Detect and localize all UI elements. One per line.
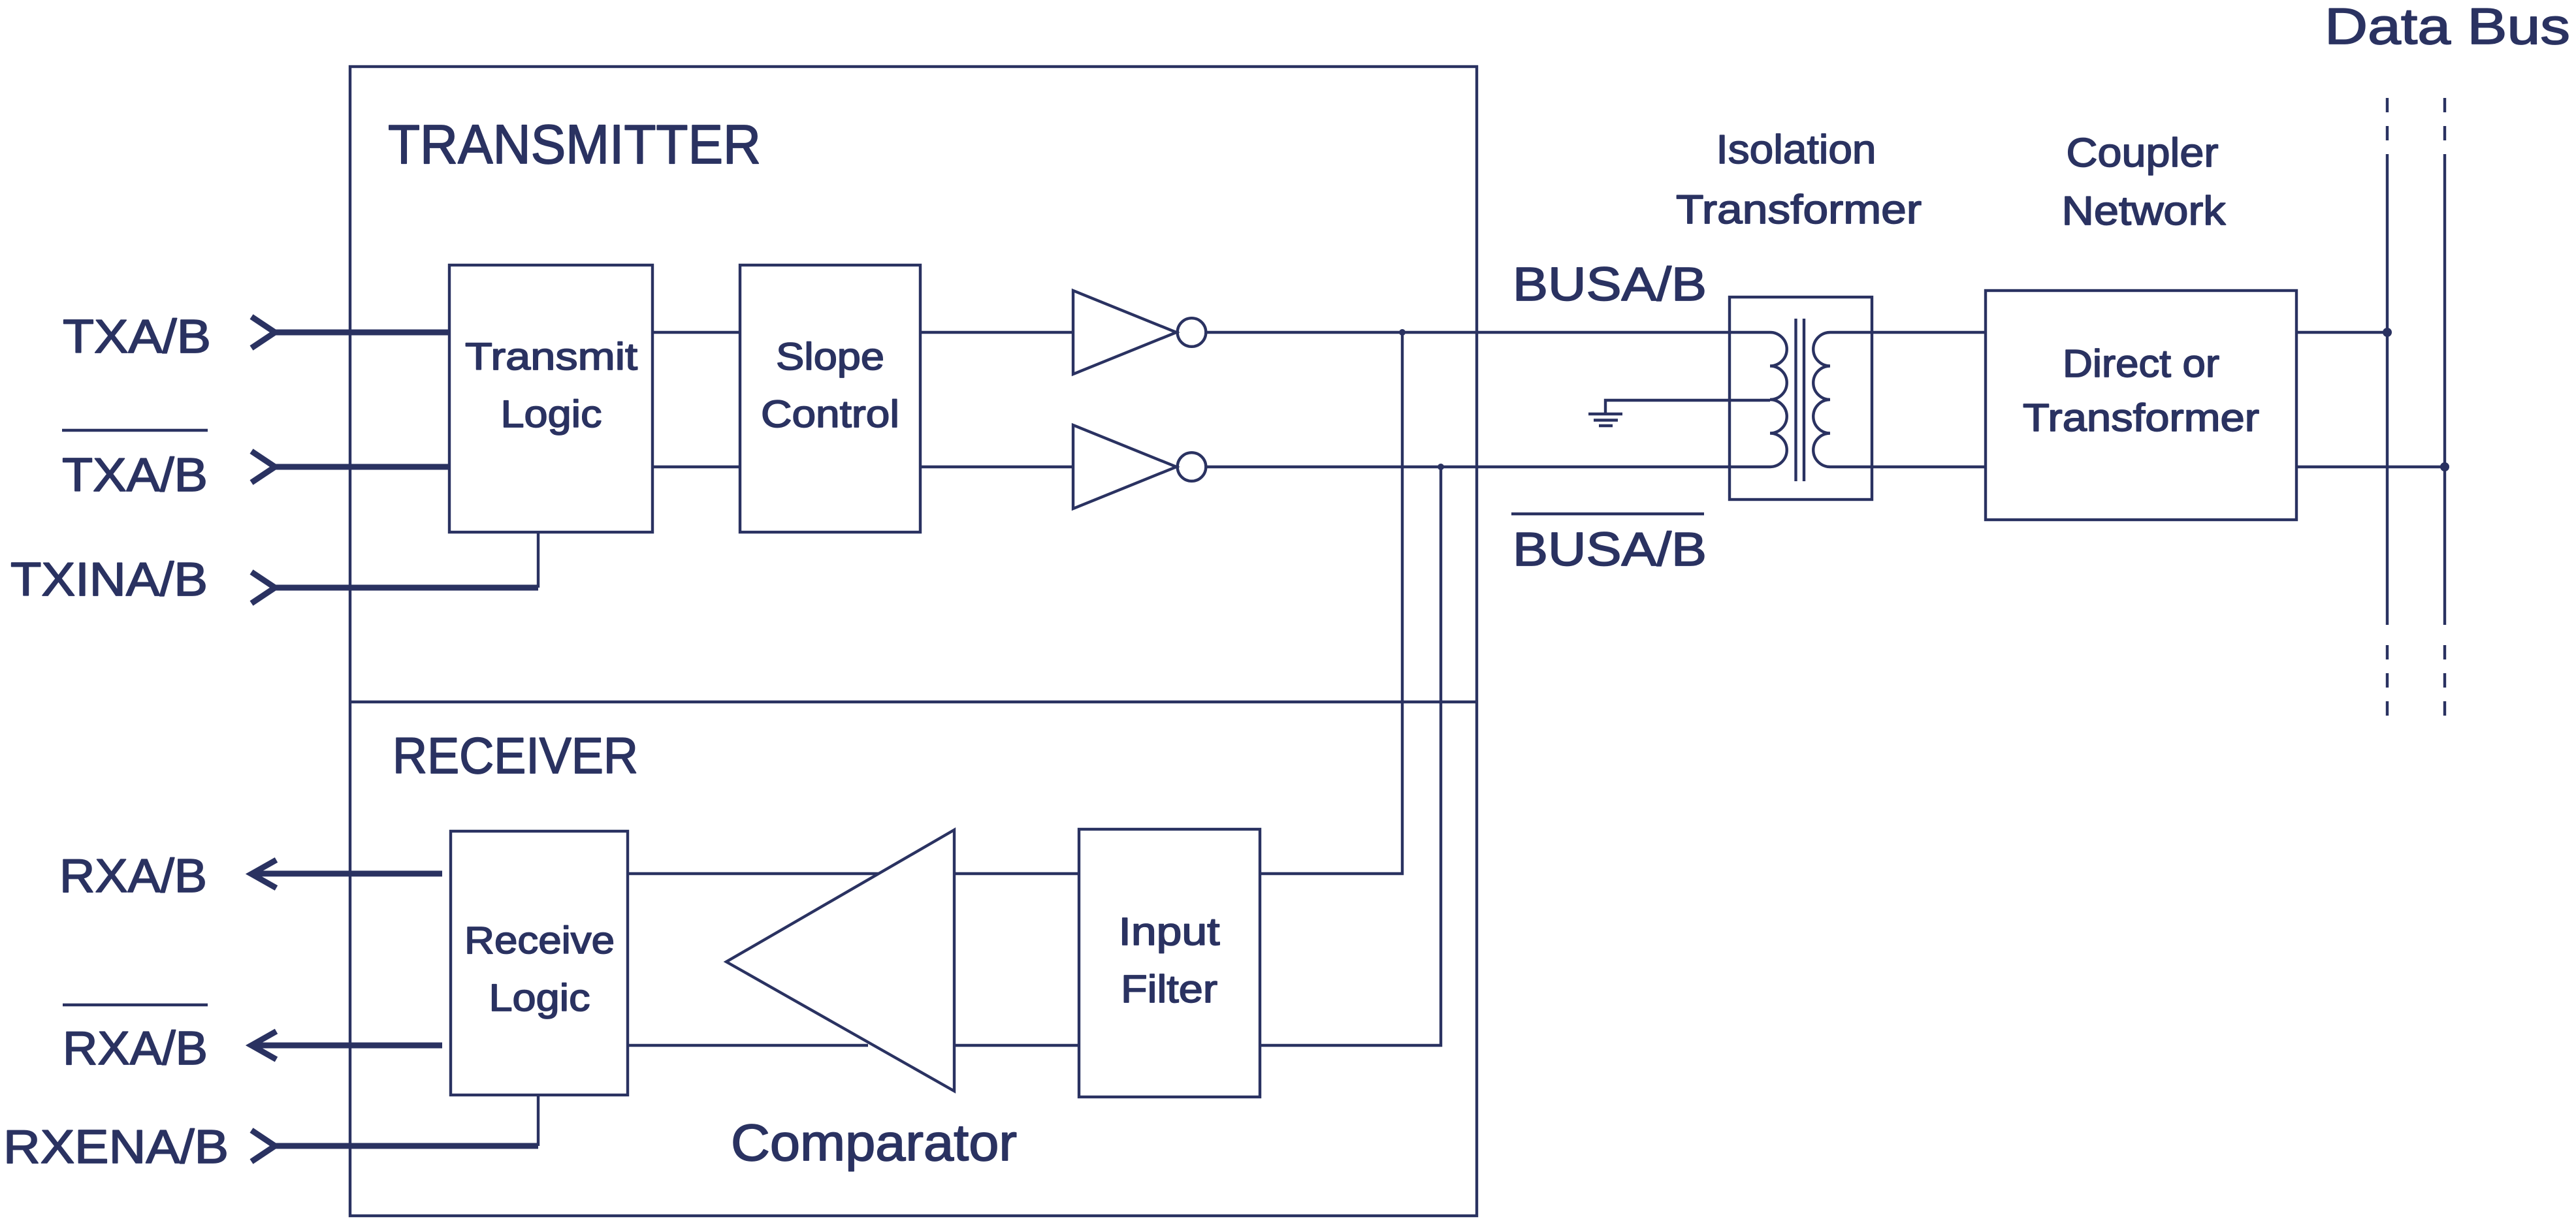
ground symbol	[1588, 414, 1622, 426]
svg-text:Filter: Filter	[1121, 968, 1217, 1011]
wire Transmit Logic to Slope Control (lower)	[652, 466, 740, 468]
input arrow RXENA/B	[251, 1130, 275, 1162]
wire TXINA/B stub up to Transmit Logic	[537, 532, 539, 588]
wire input filter to comparator (upper)	[954, 872, 1079, 875]
svg-text:Coupler: Coupler	[2067, 131, 2219, 176]
svg-text:RXA/B: RXA/B	[59, 850, 207, 902]
data bus line 1 (solid)	[2386, 168, 2389, 625]
wire RXA/B-bar output	[254, 1043, 442, 1049]
svg-text:BUSA/B: BUSA/B	[1513, 259, 1707, 311]
wire coupler to data bus line 2	[2296, 466, 2445, 468]
wire Slope Control to buffer 1	[920, 331, 1073, 334]
block Direct or Transformer coupler	[1986, 291, 2296, 520]
wire comparator to receive logic (lower)	[628, 1044, 868, 1047]
wire TXINA/B input	[275, 585, 538, 591]
svg-text:Logic: Logic	[501, 393, 602, 436]
svg-text:TXINA/B: TXINA/B	[10, 554, 208, 606]
inverter bubble 2	[1178, 452, 1206, 481]
svg-text:Transmit: Transmit	[465, 336, 637, 378]
transformer core line 2	[1803, 319, 1805, 481]
comparator triangle	[726, 830, 954, 1091]
input arrow TXA/B-bar	[251, 451, 275, 483]
wire transformer secondary to coupler (lower)	[1830, 466, 1986, 468]
data bus line 2 (dashed top)	[2443, 98, 2446, 168]
transformer primary winding	[1770, 332, 1787, 467]
block Slope Control	[740, 265, 920, 532]
tap wire 1 from BUSA/B down to receiver	[1260, 332, 1402, 874]
wire comparator to receive logic (upper)	[628, 872, 878, 875]
svg-text:RXENA/B: RXENA/B	[3, 1121, 229, 1173]
svg-text:BUSA/B: BUSA/B	[1513, 524, 1707, 576]
data bus line 1 (dashed top)	[2386, 98, 2389, 168]
junction dot on data bus line 1	[2383, 328, 2392, 337]
junction dot node BUSA/B-bar tap	[1438, 464, 1444, 470]
svg-text:Data Bus: Data Bus	[2325, 0, 2570, 55]
svg-text:Isolation: Isolation	[1716, 127, 1876, 172]
overbar for RXA/B-bar	[63, 1004, 208, 1006]
wire RXENA/B input	[275, 1143, 538, 1149]
block Receive Logic	[451, 831, 628, 1095]
buffer amplifier 2 (inverter triangle)	[1073, 425, 1176, 509]
buffer amplifier 1 (inverter triangle)	[1073, 291, 1176, 374]
wire coupler to data bus line 1	[2296, 331, 2387, 334]
svg-text:Network: Network	[2062, 189, 2227, 234]
wire buffer1 to transformer (BUSA/B)	[1206, 331, 1770, 334]
tap wire 2 from BUSA/B-bar down to receiver	[1260, 467, 1441, 1045]
input arrow TXA/B	[251, 317, 275, 348]
data bus line 2 (dashed bottom)	[2443, 645, 2446, 720]
wire input filter to comparator (lower)	[954, 1044, 1079, 1047]
isolation transformer box	[1730, 297, 1872, 499]
block Transmit Logic	[449, 265, 652, 532]
svg-text:TXA/B: TXA/B	[62, 449, 208, 501]
wire RXA/B output	[254, 871, 442, 877]
inverter bubble 1	[1178, 318, 1206, 347]
wire buffer2 to transformer (BUSA/B-bar)	[1206, 466, 1770, 468]
block Input Filter	[1079, 829, 1260, 1097]
wire RXENA/B stub up to Receive Logic	[537, 1095, 539, 1146]
transformer secondary winding	[1813, 332, 1830, 467]
junction dot on data bus line 2	[2440, 462, 2449, 471]
data bus line 1 (dashed bottom)	[2386, 645, 2389, 720]
svg-text:TRANSMITTER: TRANSMITTER	[388, 114, 761, 175]
svg-text:Transformer: Transformer	[2023, 396, 2259, 439]
svg-text:RECEIVER: RECEIVER	[393, 727, 638, 784]
output arrow RXA/B-bar	[251, 1032, 276, 1060]
svg-text:RXA/B: RXA/B	[63, 1023, 208, 1075]
wire Transmit Logic to Slope Control (upper)	[652, 331, 740, 334]
svg-text:TXA/B: TXA/B	[63, 311, 211, 363]
svg-text:Input: Input	[1119, 910, 1220, 953]
overbar for TXA/B-bar	[62, 429, 208, 432]
input arrow TXINA/B	[251, 572, 275, 603]
overbar for BUSA/B-bar	[1511, 513, 1704, 515]
svg-text:Direct or: Direct or	[2063, 342, 2219, 385]
wire center tap to ground	[1605, 400, 1770, 413]
svg-text:Logic: Logic	[489, 977, 590, 1019]
wire TXA/B-bar input	[275, 464, 449, 470]
transformer core line 1	[1794, 319, 1797, 481]
transmitter/receiver outer box	[350, 67, 1477, 1216]
junction dot node BUSA/B tap	[1399, 329, 1406, 336]
data bus line 2 (solid)	[2443, 168, 2446, 625]
svg-text:Slope: Slope	[776, 336, 884, 378]
wire transformer secondary to coupler (upper)	[1830, 331, 1986, 334]
svg-text:Transformer: Transformer	[1676, 187, 1922, 232]
divider line between transmitter and receiver	[350, 701, 1477, 703]
svg-text:Receive: Receive	[464, 919, 615, 962]
wire TXA/B input	[275, 330, 449, 336]
output arrow RXA/B	[251, 860, 276, 888]
svg-text:Control: Control	[761, 393, 899, 436]
svg-text:Comparator: Comparator	[731, 1113, 1017, 1171]
wire Slope Control to buffer 2	[920, 466, 1073, 468]
